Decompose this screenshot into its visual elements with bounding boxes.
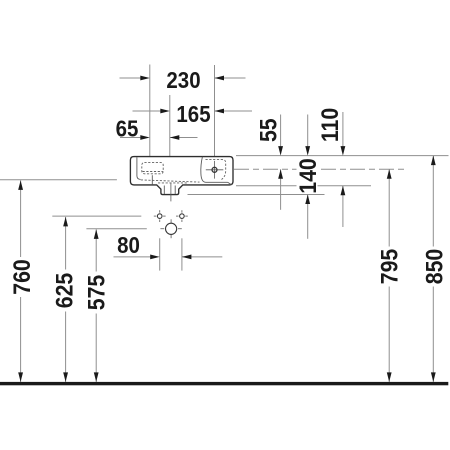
svg-text:575: 575 <box>82 275 110 311</box>
svg-text:110: 110 <box>316 108 344 142</box>
svg-text:65: 65 <box>116 116 139 142</box>
svg-text:80: 80 <box>117 232 140 258</box>
svg-text:230: 230 <box>166 67 200 93</box>
svg-text:760: 760 <box>7 259 35 295</box>
svg-text:625: 625 <box>50 273 78 309</box>
svg-text:55: 55 <box>254 118 282 142</box>
svg-text:165: 165 <box>176 101 210 127</box>
svg-text:795: 795 <box>375 249 403 285</box>
svg-text:850: 850 <box>420 249 448 285</box>
svg-text:140: 140 <box>293 158 321 194</box>
